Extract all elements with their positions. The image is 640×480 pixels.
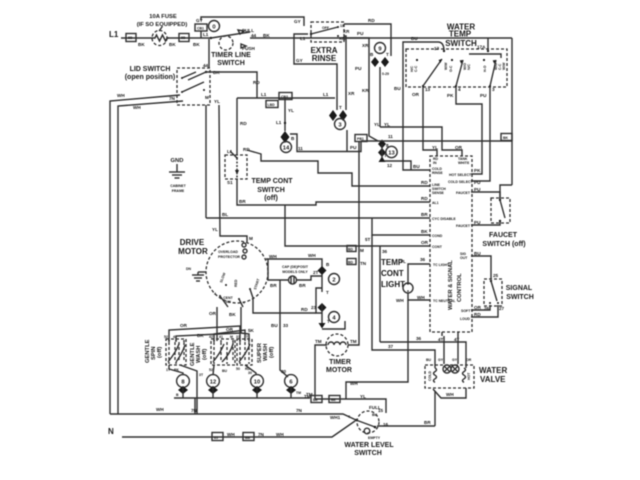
- svg-text:5K: 5K: [248, 328, 255, 333]
- svg-text:IN: IN: [433, 161, 437, 165]
- wire WH inner rail left: [118, 101, 183, 414]
- svg-text:RD: RD: [421, 180, 428, 185]
- svg-text:BR: BR: [270, 283, 277, 288]
- svg-text:30: 30: [248, 371, 252, 375]
- svg-text:L1: L1: [109, 30, 119, 39]
- svg-text:WH: WH: [350, 381, 358, 386]
- wire WH lamp to TC neutral: [408, 293, 430, 300]
- wire bracket connectors 2 and 4: [316, 288, 322, 313]
- svg-text:FAUCET: FAUCET: [456, 191, 471, 195]
- svg-text:42: 42: [209, 335, 213, 339]
- svg-text:N/C: N/C: [467, 64, 471, 71]
- svg-text:BK: BK: [193, 42, 200, 47]
- svg-text:YL: YL: [360, 394, 366, 399]
- svg-text:13: 13: [388, 151, 395, 157]
- svg-text:PU: PU: [474, 180, 481, 185]
- svg-text:4T: 4T: [454, 337, 460, 342]
- svg-text:WH: WH: [446, 392, 454, 397]
- svg-text:PU: PU: [350, 145, 357, 150]
- svg-text:W/W: W/W: [444, 62, 448, 70]
- wire BK arc: [176, 333, 241, 341]
- svg-text:BK: BK: [503, 136, 509, 140]
- svg-text:CONTROL: CONTROL: [457, 273, 463, 302]
- svg-text:4: 4: [214, 292, 216, 296]
- connector 4 tail hook: [322, 321, 345, 329]
- svg-text:BR: BR: [299, 283, 306, 288]
- svg-text:OVERLOAD: OVERLOAD: [218, 250, 238, 254]
- svg-text:GY: GY: [294, 19, 301, 24]
- wire bank1 to connector 8: [169, 365, 183, 375]
- svg-text:MOTOR: MOTOR: [326, 367, 352, 374]
- svg-text:12: 12: [387, 163, 393, 168]
- svg-text:12: 12: [210, 380, 216, 386]
- connector 10: [251, 375, 264, 398]
- svg-text:LIGHT: LIGHT: [381, 280, 405, 289]
- wire WH lamp down: [346, 300, 408, 399]
- svg-text:MOTOR: MOTOR: [178, 247, 208, 256]
- wire GY loop around extra rinse: [294, 34, 337, 110]
- svg-text:SWITCH (off): SWITCH (off): [482, 241, 525, 248]
- svg-text:OR: OR: [474, 305, 482, 310]
- svg-text:BK: BK: [229, 312, 236, 317]
- svg-text:PU: PU: [474, 220, 481, 225]
- svg-text:OR: OR: [226, 327, 234, 332]
- svg-text:FRAME: FRAME: [172, 189, 185, 193]
- svg-text:(off): (off): [269, 347, 275, 358]
- svg-text:PU: PU: [355, 66, 362, 71]
- svg-text:BK: BK: [197, 333, 204, 338]
- wire BK motor to switch bank: [240, 307, 242, 333]
- wire OR from terminal 13: [423, 87, 437, 156]
- svg-text:SIGNAL: SIGNAL: [506, 285, 533, 292]
- svg-text:41: 41: [219, 335, 223, 339]
- svg-text:EMPTY: EMPTY: [368, 436, 381, 440]
- wire PK from terminal 4: [456, 87, 482, 174]
- wire 4T drops to valve: [444, 336, 458, 364]
- svg-text:10: 10: [254, 380, 260, 386]
- wire bus under connectors: [174, 397, 310, 399]
- svg-text:(off): (off): [264, 195, 278, 202]
- wire 17A from BK top run: [487, 38, 489, 51]
- wire 7N drop from bus: [194, 398, 196, 414]
- wire WH bottom rail: [110, 414, 356, 420]
- svg-text:HOT SELECT: HOT SELECT: [449, 173, 472, 177]
- svg-text:44: 44: [251, 33, 257, 38]
- svg-text:0-29: 0-29: [382, 72, 389, 76]
- svg-text:COLD: COLD: [428, 371, 432, 381]
- svg-text:(off): (off): [157, 347, 163, 358]
- svg-text:RD: RD: [240, 121, 247, 126]
- svg-text:CYC DISABLE: CYC DISABLE: [432, 217, 456, 221]
- ground drive motor: [186, 267, 206, 281]
- svg-text:FULL: FULL: [369, 405, 381, 410]
- connector 2: [318, 262, 340, 295]
- wire BK arc 2: [241, 333, 249, 341]
- faucet switch S6: [482, 198, 525, 248]
- svg-text:CONT: CONT: [381, 269, 404, 278]
- wire WH outer rail left: [110, 95, 180, 414]
- svg-text:BD: BD: [348, 248, 354, 252]
- wire 12 from connector 13: [384, 161, 411, 170]
- switch bank gentle spin: [145, 335, 186, 372]
- wire staircase BK cond: [372, 218, 430, 235]
- svg-text:23: 23: [311, 305, 317, 310]
- svg-text:SWITCH: SWITCH: [445, 39, 477, 48]
- svg-text:BK: BK: [263, 33, 270, 38]
- svg-text:W/W: W/W: [502, 62, 506, 70]
- svg-text:PB1: PB1: [357, 137, 364, 141]
- ground cabinet frame: [169, 158, 187, 193]
- svg-text:PU: PU: [357, 31, 364, 36]
- svg-text:BR: BR: [239, 199, 246, 204]
- svg-text:OR: OR: [209, 311, 217, 316]
- svg-text:7N: 7N: [296, 408, 303, 413]
- connector CB3 on L1 row: [279, 93, 292, 100]
- svg-text:(open position): (open position): [125, 74, 176, 81]
- svg-text:WH: WH: [396, 298, 404, 303]
- wire 11 from connector 14 region: [290, 134, 361, 152]
- wire RD from extra rinse to connector 9: [344, 24, 391, 56]
- wire M from lid switch down to cyc disable line: [205, 105, 207, 218]
- svg-text:RD: RD: [301, 307, 308, 312]
- svg-text:T: T: [386, 52, 389, 57]
- svg-text:BL: BL: [222, 212, 228, 217]
- svg-text:BE: BE: [313, 398, 319, 402]
- svg-text:VALVE: VALVE: [480, 375, 506, 384]
- svg-text:8D: 8D: [181, 36, 186, 40]
- connector 9: [343, 29, 389, 71]
- svg-text:C-C: C-C: [414, 65, 418, 72]
- wire BU sig out: [471, 256, 491, 279]
- svg-text:N: N: [108, 427, 114, 436]
- svg-text:WH: WH: [269, 254, 277, 259]
- svg-text:(off): (off): [202, 349, 208, 360]
- svg-text:YL: YL: [214, 99, 220, 104]
- svg-text:30: 30: [281, 369, 287, 374]
- wire OR arc over bank 2: [214, 330, 245, 341]
- wire N neutral line: [122, 421, 355, 437]
- wire WH motor to connector 2: [266, 259, 322, 292]
- connector block on L1 wire: [126, 34, 136, 42]
- svg-text:BD: BD: [348, 261, 354, 265]
- svg-text:GY: GY: [296, 58, 303, 63]
- svg-text:GY: GY: [452, 358, 458, 362]
- svg-text:WH: WH: [308, 253, 316, 258]
- wire staircase RD AL1: [237, 179, 430, 205]
- svg-text:OFF: OFF: [322, 26, 330, 30]
- svg-text:L1: L1: [261, 92, 267, 97]
- svg-text:0: 0: [212, 25, 215, 31]
- svg-text:OR: OR: [412, 92, 420, 97]
- svg-text:T: T: [326, 290, 329, 295]
- connector block on L1 wire: [179, 34, 189, 42]
- drive motor B1: [178, 238, 268, 317]
- temp cont light DS1: [381, 258, 413, 293]
- svg-text:TEMP: TEMP: [449, 30, 472, 39]
- wire OR arc over bank 1: [169, 326, 240, 341]
- svg-text:RD: RD: [368, 18, 375, 23]
- wire bank2 to connector 12: [213, 365, 214, 375]
- svg-text:16: 16: [383, 422, 389, 427]
- svg-text:COLD SELECT: COLD SELECT: [448, 180, 474, 184]
- svg-text:M: M: [360, 248, 364, 253]
- svg-text:BU: BU: [474, 251, 481, 256]
- svg-text:TN: TN: [360, 261, 367, 266]
- svg-text:WATER: WATER: [479, 366, 508, 375]
- wire staircase RD line switch sense: [247, 150, 430, 186]
- wire 0-29 from connector 9 down: [379, 67, 381, 127]
- svg-text:CONT: CONT: [432, 245, 443, 249]
- svg-text:RD: RD: [253, 80, 260, 85]
- svg-text:RINSE: RINSE: [312, 54, 337, 63]
- svg-text:BE: BE: [331, 398, 337, 402]
- svg-text:MODELS ONLY: MODELS ONLY: [282, 270, 308, 274]
- svg-text:8D: 8D: [128, 36, 133, 40]
- wire timer motor left down: [315, 345, 327, 399]
- svg-text:PK: PK: [474, 168, 481, 173]
- wire BR to water level switch: [377, 425, 435, 427]
- svg-text:YL: YL: [384, 122, 390, 127]
- svg-text:YL: YL: [288, 108, 294, 113]
- svg-text:XR: XR: [348, 91, 355, 96]
- svg-text:LBD: LBD: [268, 103, 276, 107]
- temp cont switch S5: [225, 147, 293, 202]
- svg-text:FAUCET: FAUCET: [489, 232, 518, 239]
- svg-text:YL: YL: [212, 227, 218, 232]
- wire RD loud: [471, 305, 498, 317]
- wire 5T column to water valve cold: [372, 235, 435, 368]
- svg-text:L1: L1: [300, 36, 306, 41]
- svg-text:WH: WH: [117, 93, 125, 98]
- wire RD drop to temp cont switch: [236, 98, 238, 155]
- signal switch S7: [484, 279, 534, 311]
- wire BK main top run to right column: [250, 37, 512, 39]
- wire GY to extra rinse: [201, 17, 304, 26]
- svg-text:BU: BU: [394, 86, 401, 91]
- wire BK right column drop: [511, 38, 513, 185]
- timer line switch S1: [203, 21, 270, 52]
- capacitor C1 branch: [268, 259, 322, 288]
- svg-text:PUSH: PUSH: [242, 46, 255, 51]
- wire L1 feed: [121, 37, 152, 39]
- svg-text:BU: BU: [271, 323, 278, 328]
- svg-text:L1: L1: [276, 120, 282, 125]
- svg-text:7N: 7N: [169, 96, 176, 101]
- water temp switch S4: [406, 23, 507, 99]
- wire YL to tank white: [380, 127, 462, 156]
- svg-text:36: 36: [420, 257, 426, 262]
- svg-text:LOUD: LOUD: [460, 317, 470, 321]
- svg-text:14: 14: [283, 146, 290, 152]
- wire YL from lid switch down to drive motor: [219, 105, 247, 242]
- water level switch S8: [344, 405, 394, 457]
- svg-text:CABINET: CABINET: [170, 184, 186, 188]
- switch bank gentle wash: [190, 335, 235, 373]
- wire PU faucet upper: [471, 192, 500, 199]
- wire L1 node row: [237, 97, 335, 99]
- svg-text:DN: DN: [186, 267, 192, 271]
- svg-text:M: M: [205, 95, 209, 100]
- svg-text:BR: BR: [421, 212, 428, 217]
- svg-text:RED: RED: [234, 279, 238, 287]
- wire BU into terminal 17: [403, 42, 444, 87]
- wire PU from terminal 3: [471, 87, 490, 181]
- svg-text:44: 44: [203, 63, 209, 68]
- wire WH valve bottom loop: [433, 388, 466, 398]
- svg-text:OR: OR: [421, 240, 429, 245]
- svg-text:33: 33: [283, 323, 289, 328]
- connector LBD below L1 row: [266, 101, 278, 108]
- connector 12: [207, 375, 220, 398]
- svg-text:CAP (DE)POSIT: CAP (DE)POSIT: [282, 265, 309, 269]
- svg-text:WH: WH: [227, 432, 235, 437]
- svg-text:5T: 5T: [365, 237, 371, 242]
- wire BK horizontal mid with connector PB1: [355, 134, 512, 142]
- switch bank super wash: [236, 335, 275, 371]
- svg-text:4: 4: [458, 87, 461, 92]
- svg-text:RD: RD: [421, 196, 428, 201]
- svg-text:50: 50: [236, 367, 240, 371]
- wire staircase OR cont: [285, 205, 430, 246]
- svg-text:PU: PU: [474, 187, 481, 192]
- connector 3: [329, 105, 347, 130]
- svg-text:36: 36: [382, 249, 388, 254]
- wire YL drop to connector 14: [284, 98, 286, 131]
- extra rinse switch S2: [300, 22, 346, 42]
- wire 36 OR to water valve: [380, 342, 466, 368]
- svg-text:TEMP CONT: TEMP CONT: [251, 178, 293, 185]
- svg-text:4T: 4T: [438, 337, 444, 342]
- svg-text:11: 11: [388, 134, 393, 139]
- svg-text:XR: XR: [362, 43, 369, 48]
- svg-text:WATER LEVEL: WATER LEVEL: [344, 442, 394, 449]
- svg-text:M: M: [230, 335, 233, 339]
- svg-text:WHITE: WHITE: [458, 161, 470, 165]
- wire BU cold rinse: [403, 87, 430, 170]
- svg-text:11: 11: [298, 146, 303, 151]
- svg-text:3: 3: [492, 87, 495, 92]
- svg-text:TM: TM: [350, 339, 357, 344]
- svg-text:SWITCH: SWITCH: [217, 60, 245, 67]
- svg-text:BK: BK: [421, 229, 428, 234]
- svg-text:TIMER LINE: TIMER LINE: [211, 52, 251, 59]
- water valve LV1: [425, 365, 508, 388]
- svg-text:17A: 17A: [477, 45, 486, 50]
- svg-text:L1: L1: [203, 32, 209, 37]
- connector 8: [176, 375, 189, 398]
- svg-text:T: T: [339, 105, 342, 110]
- svg-text:10A FUSE: 10A FUSE: [149, 14, 177, 20]
- svg-text:HOT: HOT: [467, 372, 471, 380]
- svg-text:18: 18: [340, 24, 344, 28]
- svg-text:BK: BK: [169, 42, 176, 47]
- svg-text:TIMER: TIMER: [329, 359, 351, 366]
- svg-text:WH: WH: [156, 407, 164, 412]
- svg-text:BU: BU: [413, 164, 420, 169]
- svg-text:SWITCH: SWITCH: [506, 294, 534, 301]
- svg-text:FAUCET: FAUCET: [456, 224, 471, 228]
- wire PU from extra rinse down to connector 13: [344, 38, 378, 141]
- connector 14: [281, 131, 296, 153]
- svg-text:BU: BU: [426, 358, 432, 362]
- svg-text:52: 52: [209, 368, 213, 372]
- svg-text:DRIVE: DRIVE: [180, 238, 205, 247]
- svg-text:O-C: O-C: [449, 65, 453, 72]
- wire YL lamp to TC light: [408, 264, 430, 283]
- svg-text:17: 17: [434, 46, 440, 51]
- svg-text:OR: OR: [180, 323, 188, 328]
- svg-text:WH: WH: [417, 295, 425, 300]
- svg-text:SWITCH: SWITCH: [354, 450, 382, 457]
- wire BK drop to faucet: [500, 185, 512, 198]
- wire RD start to connector 4: [253, 298, 316, 313]
- wire valve to BR line: [434, 391, 436, 426]
- svg-text:H-O: H-O: [483, 65, 487, 72]
- svg-text:LID SWITCH: LID SWITCH: [130, 66, 171, 73]
- svg-text:TM: TM: [315, 339, 322, 344]
- svg-text:KR: KR: [362, 88, 369, 93]
- svg-text:RINSE: RINSE: [432, 171, 443, 175]
- wire staircase BR cyc disable: [206, 217, 430, 219]
- svg-text:OR: OR: [466, 358, 472, 362]
- lid switch S3: [125, 63, 221, 105]
- wire TN column to timer motor right: [348, 141, 359, 345]
- svg-text:36: 36: [416, 336, 422, 341]
- svg-text:65: 65: [214, 436, 218, 440]
- wire lid switch feed from timer: [208, 39, 210, 68]
- svg-text:2T: 2T: [313, 270, 319, 275]
- svg-text:TM: TM: [304, 394, 311, 399]
- svg-text:SENSE: SENSE: [432, 191, 445, 195]
- svg-text:13: 13: [425, 87, 431, 92]
- svg-text:GND: GND: [171, 158, 184, 164]
- svg-text:M: M: [249, 236, 253, 241]
- svg-text:SWITCH: SWITCH: [257, 187, 285, 194]
- wire XR from extra rinse down to connector 3: [344, 36, 346, 110]
- wire PU faucet lower: [471, 222, 500, 225]
- svg-text:L1: L1: [323, 92, 329, 97]
- svg-text:2: 2: [332, 278, 335, 284]
- svg-text:OR: OR: [455, 145, 463, 150]
- wire bank1 right contact to bus: [180, 365, 197, 414]
- svg-text:GY: GY: [438, 358, 444, 362]
- svg-text:WH: WH: [276, 432, 284, 437]
- svg-text:OUT: OUT: [460, 256, 468, 260]
- control strip water and signal control: [430, 156, 474, 342]
- svg-text:7N: 7N: [258, 432, 265, 437]
- svg-text:7N: 7N: [191, 408, 198, 413]
- svg-text:TM: TM: [296, 391, 301, 395]
- wire BU cap node down to connector 6: [280, 280, 288, 377]
- svg-text:BB: BB: [245, 436, 251, 440]
- svg-text:37: 37: [388, 344, 394, 349]
- svg-text:TC LIGHT: TC LIGHT: [433, 263, 450, 267]
- svg-text:PK: PK: [447, 93, 454, 98]
- svg-text:YL: YL: [374, 122, 380, 127]
- svg-text:RD: RD: [474, 312, 481, 317]
- svg-text:BU: BU: [411, 36, 418, 41]
- svg-text:BK: BK: [138, 42, 145, 47]
- svg-text:25: 25: [493, 273, 499, 278]
- svg-text:CB1: CB1: [197, 27, 204, 31]
- svg-text:AL1: AL1: [432, 201, 439, 205]
- label GY with connector CB1: [195, 18, 207, 38]
- wire 44 BK from lid switch to L1 node: [206, 72, 257, 98]
- svg-text:52: 52: [164, 335, 168, 339]
- fuse F1: [152, 31, 169, 46]
- timer motor B2: [315, 334, 357, 374]
- svg-text:WH: WH: [133, 105, 141, 110]
